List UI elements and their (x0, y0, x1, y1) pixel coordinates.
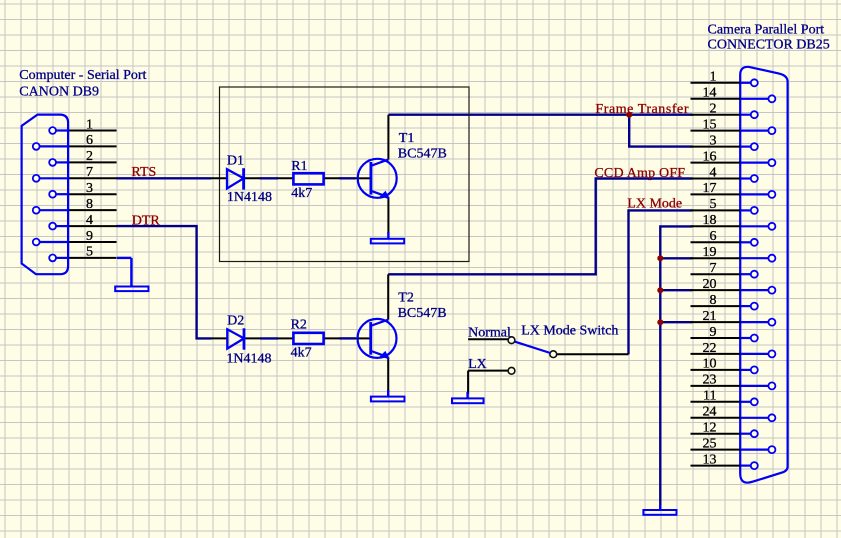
svg-text:8: 8 (86, 197, 93, 212)
svg-text:21: 21 (703, 309, 717, 324)
svg-text:9: 9 (710, 325, 717, 340)
svg-text:3: 3 (710, 133, 717, 148)
svg-text:BC547B: BC547B (398, 306, 447, 321)
svg-text:5: 5 (86, 245, 93, 260)
svg-text:D1: D1 (227, 154, 244, 169)
svg-text:Camera Parallel Port: Camera Parallel Port (708, 23, 825, 38)
svg-text:25: 25 (703, 436, 717, 451)
svg-text:Frame Transfer: Frame Transfer (595, 102, 689, 117)
svg-text:12: 12 (703, 421, 717, 436)
svg-text:16: 16 (703, 149, 717, 164)
svg-text:17: 17 (703, 181, 717, 196)
svg-text:7: 7 (710, 261, 717, 276)
svg-text:DTR: DTR (132, 213, 161, 228)
svg-text:LX Mode Switch: LX Mode Switch (521, 323, 618, 338)
svg-text:18: 18 (703, 213, 717, 228)
svg-text:6: 6 (86, 133, 93, 148)
svg-text:LX: LX (468, 357, 487, 372)
svg-text:7: 7 (86, 165, 93, 180)
svg-text:6: 6 (710, 229, 717, 244)
svg-text:10: 10 (703, 357, 717, 372)
svg-text:BC547B: BC547B (398, 147, 447, 162)
svg-text:2: 2 (710, 102, 717, 117)
svg-text:19: 19 (703, 245, 717, 260)
svg-text:5: 5 (710, 197, 717, 212)
svg-text:1: 1 (710, 70, 717, 85)
svg-text:8: 8 (710, 293, 717, 308)
svg-text:LX Mode: LX Mode (627, 197, 682, 212)
svg-text:T2: T2 (398, 290, 414, 305)
svg-text:Normal: Normal (468, 325, 511, 340)
svg-text:23: 23 (703, 373, 717, 388)
svg-text:R1: R1 (291, 159, 307, 174)
svg-text:CANON DB9: CANON DB9 (19, 84, 99, 99)
svg-text:R2: R2 (291, 318, 307, 333)
svg-text:T1: T1 (399, 131, 415, 146)
svg-text:24: 24 (703, 405, 717, 420)
svg-text:2: 2 (86, 149, 93, 164)
svg-text:4k7: 4k7 (291, 186, 312, 201)
svg-text:Computer - Serial Port: Computer - Serial Port (19, 68, 146, 83)
svg-text:22: 22 (703, 341, 717, 356)
svg-text:D2: D2 (227, 314, 244, 329)
svg-text:15: 15 (703, 117, 717, 132)
svg-text:11: 11 (703, 389, 716, 404)
svg-text:1: 1 (86, 117, 93, 132)
svg-text:9: 9 (86, 229, 93, 244)
svg-text:CONNECTOR DB25: CONNECTOR DB25 (708, 38, 830, 53)
svg-text:4: 4 (710, 165, 717, 180)
svg-text:20: 20 (703, 277, 717, 292)
svg-text:RTS: RTS (131, 165, 156, 180)
svg-text:4k7: 4k7 (291, 345, 312, 360)
svg-text:4: 4 (86, 213, 93, 228)
svg-text:3: 3 (86, 181, 93, 196)
svg-text:1N4148: 1N4148 (226, 352, 271, 367)
svg-text:1N4148: 1N4148 (227, 190, 272, 205)
svg-text:13: 13 (703, 452, 717, 467)
svg-text:14: 14 (703, 86, 717, 101)
svg-text:CCD Amp OFF: CCD Amp OFF (594, 166, 685, 181)
